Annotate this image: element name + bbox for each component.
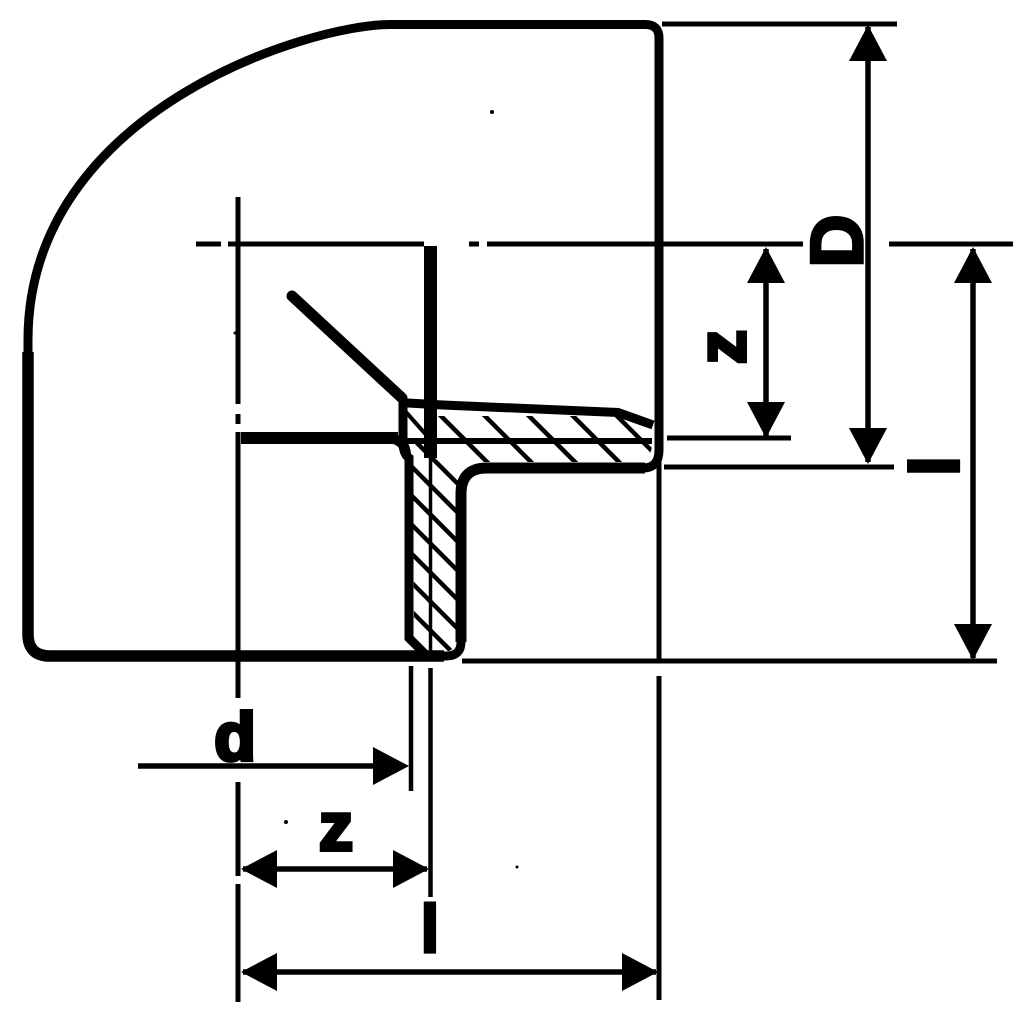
extension line top (for D)	[662, 22, 897, 27]
dimension l bottom (axis to face) line	[243, 969, 656, 975]
horizontal socket bore line with mouth chamfer	[399, 403, 653, 426]
svg-text:D: D	[797, 215, 878, 268]
svg-text:d: d	[214, 699, 256, 775]
scan specks	[490, 110, 494, 114]
dimension z right line	[763, 249, 769, 436]
hatch line in corner pocket	[405, 411, 429, 438]
elbow body outer contour	[28, 25, 659, 657]
outer corner fillet overdraw	[461, 468, 645, 642]
extension line pipe-stop shoulder right (for z)	[667, 436, 791, 441]
svg-text:z: z	[319, 789, 353, 865]
vertical centerline	[236, 197, 241, 1002]
extension line right-arm bottom (for D and l)	[664, 465, 894, 470]
extension line stop plane below (for z)	[429, 455, 433, 652]
hatching vertical-arm wall	[390, 416, 490, 690]
partial-section break line (diagonal)	[292, 296, 402, 398]
horizontal centerline	[196, 242, 1013, 247]
extension line vertical-arm bottom face (for l)	[462, 659, 997, 664]
corner pocket bottom line through wall	[398, 438, 652, 444]
hatching horizontal-arm wall	[425, 400, 681, 480]
svg-text:l: l	[897, 457, 973, 476]
extension line right edge down (for bottom l)	[657, 462, 662, 663]
dimension z bottom line	[243, 866, 427, 872]
svg-text:l: l	[421, 891, 440, 967]
vertical socket pipe-stop line	[241, 432, 398, 444]
dimension D line	[865, 27, 871, 462]
extension line bore d below	[409, 666, 414, 791]
dimension d line with single arrowhead	[138, 763, 404, 769]
svg-text:z: z	[684, 330, 760, 364]
vertical socket stop corner radius	[394, 439, 406, 454]
left edge thicker overdraw	[28, 352, 444, 656]
horizontal socket pipe-stop line	[424, 246, 437, 458]
dimension l right line	[970, 249, 976, 658]
vertical socket bore line, pocket edge and mouth chamfer	[403, 399, 425, 654]
